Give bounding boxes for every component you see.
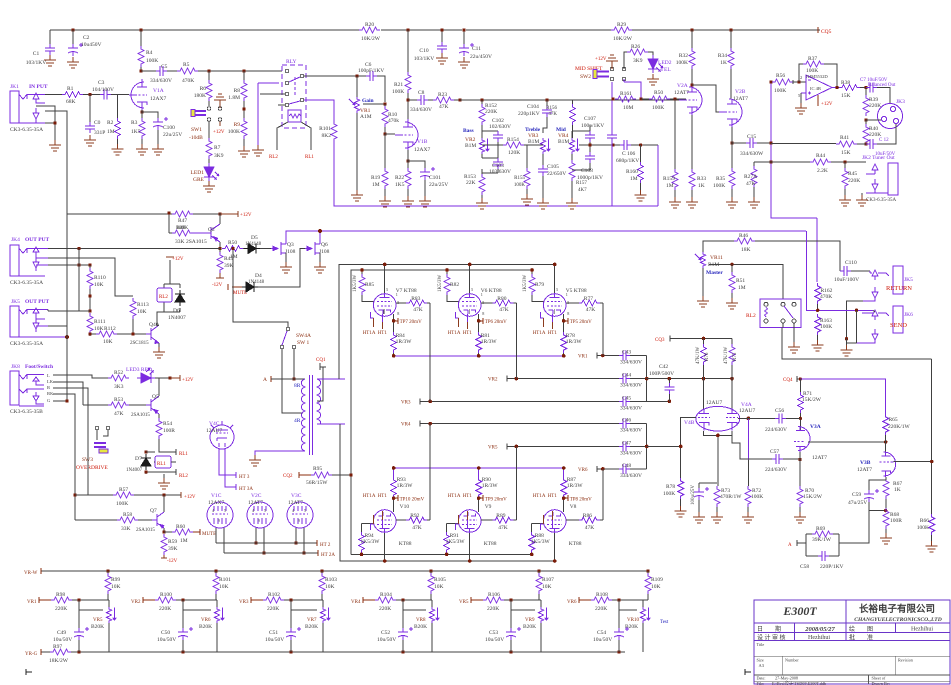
resistor R60 [172, 529, 193, 535]
tap VR5 grid line [507, 443, 619, 449]
tube V1C heater [207, 502, 233, 528]
svg-text:CQ2: CQ2 [283, 474, 293, 479]
resistor R156 [572, 100, 574, 104]
svg-text:220K: 220K [869, 103, 881, 109]
transistor Q7 [152, 512, 164, 528]
svg-text:C 106: C 106 [622, 151, 636, 157]
svg-text:RL1: RL1 [305, 155, 314, 160]
svg-text:V2A: V2A [677, 83, 688, 89]
resistor R107 [538, 571, 540, 573]
svg-text:RL2: RL2 [269, 155, 278, 160]
ground [238, 146, 250, 157]
resistor R108 [591, 597, 612, 603]
svg-text:1M: 1M [372, 182, 380, 188]
tap HT2A [317, 550, 319, 556]
svg-text:长裕电子有限公司: 长裕电子有限公司 [859, 603, 935, 615]
svg-text:1R/3W: 1R/3W [396, 339, 413, 345]
svg-text:220K/1W: 220K/1W [888, 424, 911, 430]
svg-text:R85: R85 [365, 282, 374, 288]
svg-text:220K: 220K [379, 606, 391, 612]
tube V4C [210, 421, 234, 449]
wire wiper to grid node [363, 103, 385, 105]
svg-text:3: 3 [386, 287, 388, 292]
wire send ring [847, 310, 857, 343]
resistor R97 [50, 649, 71, 655]
svg-text:8: 8 [397, 311, 399, 316]
pot VR7 [322, 600, 324, 607]
resistor R82 screen [446, 270, 448, 274]
svg-text:47K: 47K [586, 307, 596, 313]
wire tone input rail [460, 99, 682, 101]
wire master wiper [709, 264, 783, 299]
wire mid wiper out [579, 144, 620, 146]
svg-text:47K: 47K [114, 411, 124, 417]
capacitor C55 [699, 483, 717, 488]
svg-text:Size: Size [757, 658, 764, 663]
tap VR3 bias [251, 597, 263, 603]
svg-text:100R: 100R [163, 428, 175, 434]
svg-text:TP8 20mV: TP8 20mV [570, 498, 592, 503]
resistor R106 [483, 597, 504, 603]
tap HT3 [219, 449, 236, 478]
svg-text:Date:: Date: [757, 676, 766, 681]
resistor R154 [482, 144, 503, 146]
wire grid column [515, 303, 517, 379]
tube V3B [880, 452, 896, 477]
svg-text:B1M: B1M [558, 139, 569, 145]
svg-text:C2: C2 [83, 35, 90, 41]
svg-text:JK5: JK5 [904, 277, 913, 283]
svg-text:C3: C3 [98, 80, 105, 86]
svg-text:C52: C52 [381, 630, 390, 636]
svg-text:R92: R92 [410, 513, 419, 519]
wire V4B grid [681, 417, 696, 446]
svg-text:1R/3W: 1R/3W [481, 339, 498, 345]
svg-text:10u/50V: 10u/50V [377, 637, 396, 643]
wire top B+ bus [50, 29, 820, 31]
resistor R152 [481, 100, 483, 104]
svg-text:220p1KV: 220p1KV [518, 111, 540, 117]
resistor R102 [263, 597, 284, 603]
power +12V opamp [817, 95, 819, 106]
svg-text:4: 4 [212, 508, 214, 513]
svg-text:V2C: V2C [251, 493, 262, 499]
capacitor C59 [869, 478, 886, 490]
svg-text:V7 KT88: V7 KT88 [396, 288, 417, 294]
svg-text:Q7: Q7 [150, 508, 157, 514]
svg-text:KT88: KT88 [569, 541, 582, 547]
power +12V [220, 211, 238, 217]
wire plate riser V5 [554, 264, 556, 293]
resistor R6 [208, 71, 210, 106]
wire sleeve to ground [36, 106, 67, 214]
svg-text:R51: R51 [736, 278, 745, 284]
resistor R54 [156, 418, 162, 439]
capacitor C53 [511, 600, 535, 628]
svg-text:100pF/1KV: 100pF/1KV [358, 68, 384, 74]
capacitor C11 [463, 30, 465, 44]
svg-text:22u/25V: 22u/25V [163, 132, 182, 138]
svg-text:334/630V: 334/630V [150, 78, 172, 84]
op-amp IC4B NJM5532D [801, 75, 840, 100]
capacitor C8 [408, 99, 417, 101]
node bus junctions [71, 28, 732, 31]
svg-text:VR-W: VR-W [24, 571, 38, 576]
svg-text:C110: C110 [845, 260, 857, 266]
resistor R65 [883, 414, 889, 435]
svg-text:R100: R100 [160, 592, 172, 598]
svg-text:220K: 220K [55, 606, 67, 612]
svg-text:47u/25V: 47u/25V [848, 500, 867, 506]
svg-text:VR7: VR7 [307, 618, 317, 623]
pot VR10 [643, 600, 648, 607]
wire V3B grid to R66 column [894, 359, 932, 514]
ground [669, 197, 681, 208]
svg-text:VR6: VR6 [578, 468, 588, 473]
svg-text:12AT7: 12AT7 [733, 96, 748, 102]
wire JK4 tip [41, 248, 48, 250]
wire screen rail lower [351, 553, 532, 555]
svg-text:1N4148: 1N4148 [245, 242, 262, 247]
wire V4A grid [738, 417, 749, 419]
svg-text:10K: 10K [542, 584, 552, 590]
svg-text:180K: 180K [194, 93, 206, 99]
svg-text:R89: R89 [496, 513, 505, 519]
svg-text:5: 5 [224, 508, 226, 513]
resistor R10 [384, 104, 386, 106]
ground [812, 340, 824, 351]
svg-text:+12V: +12V [182, 378, 194, 383]
svg-text:R69: R69 [816, 526, 825, 532]
ground [203, 181, 215, 192]
svg-text:8: 8 [482, 311, 484, 316]
resistor R160 [639, 143, 642, 146]
svg-text:18K/2W: 18K/2W [49, 658, 69, 664]
svg-text:1N4007: 1N4007 [126, 468, 143, 473]
tap MUTE [193, 529, 200, 535]
capacitor C15 [732, 142, 746, 144]
svg-text:C105: C105 [547, 164, 559, 170]
ground [351, 190, 363, 201]
capacitor C0 [89, 95, 91, 123]
wire cathodes join [704, 431, 733, 440]
svg-text:100K: 100K [228, 129, 240, 135]
wire plate riser V8 [554, 533, 556, 561]
svg-text:RETURN: RETURN [886, 285, 912, 292]
svg-text:R159: R159 [663, 176, 675, 182]
wire relay NO to C6 [304, 75, 366, 77]
ground [537, 198, 549, 209]
svg-text:R4: R4 [146, 50, 153, 56]
wire JK5 tip [41, 309, 48, 311]
resistor R22 [407, 150, 409, 168]
wire grid column [429, 303, 431, 401]
svg-text:15K: 15K [841, 150, 851, 156]
ground [67, 57, 79, 68]
resistor R75 [731, 339, 733, 345]
resistor R103 [321, 571, 323, 573]
svg-text:批 准: 批 准 [849, 634, 873, 642]
svg-text:1R/3W: 1R/3W [482, 483, 499, 489]
svg-text:8R: 8R [294, 383, 301, 389]
capacitor C2 [72, 30, 74, 44]
capacitor C44 [619, 374, 630, 384]
svg-text:OVERDRIVE: OVERDRIVE [76, 465, 108, 471]
svg-text:4K7: 4K7 [578, 188, 587, 193]
pot VR1 Gain [356, 76, 358, 97]
svg-text:Bass: Bass [463, 128, 474, 134]
svg-text:47K: 47K [412, 525, 422, 531]
svg-text:220K: 220K [159, 606, 171, 612]
jack JK6 SEND [857, 306, 904, 343]
ground [521, 194, 533, 205]
svg-text:R113: R113 [137, 302, 149, 308]
svg-text:47K/1W: 47K/1W [696, 347, 701, 365]
svg-text:R3: R3 [131, 120, 138, 126]
svg-text:B20K: B20K [523, 624, 536, 630]
svg-text:100K: 100K [774, 88, 786, 94]
tap TP5 [564, 318, 569, 324]
resistor R111 [87, 313, 93, 334]
svg-text:HT1: HT1 [378, 494, 388, 499]
svg-text:1M: 1M [107, 129, 115, 135]
svg-text:Hezhihui: Hezhihui [911, 627, 933, 633]
svg-text:Q6: Q6 [321, 242, 328, 248]
svg-text:100R: 100R [890, 518, 902, 524]
svg-text:OUT PUT: OUT PUT [25, 299, 50, 305]
svg-text:V8: V8 [570, 504, 577, 510]
wire bottom +12V bus [67, 213, 220, 215]
ground [49, 140, 61, 151]
svg-text:47K: 47K [413, 307, 423, 313]
svg-text:2SA1015: 2SA1015 [136, 528, 155, 533]
wire CQ4 to R65 [800, 379, 885, 414]
tap CQ5 [817, 27, 819, 33]
svg-text:12AU7: 12AU7 [739, 408, 755, 414]
svg-text:R106: R106 [488, 592, 500, 598]
svg-text:Revision: Revision [898, 658, 914, 663]
svg-text:V3B: V3B [860, 460, 871, 466]
svg-text:R49: R49 [224, 256, 233, 262]
svg-text:100K: 100K [820, 324, 832, 330]
svg-text:A3: A3 [759, 663, 765, 668]
svg-text:1K5/3W: 1K5/3W [446, 539, 466, 545]
content groups inserted below [10, 28, 820, 231]
resistor R4 [140, 30, 142, 71]
svg-text:B20K: B20K [199, 624, 212, 630]
ground [880, 533, 892, 544]
svg-text:R32: R32 [679, 53, 688, 59]
wire phase B line [647, 401, 681, 446]
svg-text:VR8: VR8 [416, 618, 426, 623]
power -12V [216, 273, 224, 278]
svg-text:V4C: V4C [209, 421, 220, 427]
svg-text:334/630W: 334/630W [740, 151, 764, 157]
svg-text:VR1: VR1 [27, 600, 37, 605]
capacitor C51 [291, 600, 317, 628]
svg-text:103/1KV: 103/1KV [26, 60, 47, 66]
ground [711, 512, 723, 523]
svg-text:100K: 100K [676, 60, 688, 66]
heater stubs V7 [371, 312, 383, 322]
resistor R8 [243, 71, 245, 109]
power -12V [161, 555, 167, 558]
svg-text:R6: R6 [200, 86, 207, 92]
svg-text:R83: R83 [411, 296, 420, 302]
resistor R104 [375, 597, 396, 603]
tap TP10 [394, 495, 399, 501]
svg-text:C45: C45 [622, 395, 631, 401]
ground [379, 196, 391, 207]
wire bias bottom rail YR-G [41, 651, 625, 653]
wire cathode V5 [554, 309, 564, 321]
svg-text:12AT7: 12AT7 [812, 455, 827, 461]
tube V9 KT88 lower [458, 510, 481, 533]
resistor R26 [624, 52, 627, 69]
svg-text:C53: C53 [489, 630, 498, 636]
svg-text:R79: R79 [535, 282, 544, 288]
svg-text:MUTE: MUTE [202, 532, 216, 537]
svg-text:R7: R7 [214, 145, 221, 151]
svg-text:+12V: +12V [213, 130, 225, 135]
svg-text:15K/2W: 15K/2W [802, 397, 822, 403]
ground [436, 53, 448, 64]
svg-text:15K: 15K [841, 93, 851, 99]
tap VR6 bias [579, 597, 591, 603]
resistor R50 [218, 247, 221, 250]
svg-text:C5: C5 [161, 64, 168, 70]
svg-text:Gain: Gain [362, 98, 374, 104]
tap RL1 [159, 439, 176, 455]
svg-text:1.8M: 1.8M [228, 95, 240, 101]
svg-text:10u/50V: 10u/50V [485, 637, 504, 643]
svg-text:100K: 100K [514, 183, 526, 188]
resistor R41 [771, 143, 836, 145]
diode D5 [243, 248, 244, 250]
svg-text:D7: D7 [135, 456, 142, 462]
svg-text:1: 1 [396, 292, 398, 297]
capacitor C12 [866, 139, 877, 149]
power +12V tap [214, 94, 226, 108]
svg-text:39K/1W: 39K/1W [812, 537, 832, 543]
switch SW1 [207, 107, 222, 122]
wire grid column [602, 303, 604, 356]
resistor R79 screen [531, 270, 533, 274]
capacitor C52 [403, 600, 426, 628]
svg-text:10K: 10K [103, 339, 113, 345]
power +12V [170, 375, 180, 381]
svg-text:1N4007: 1N4007 [168, 315, 186, 321]
svg-text:JK6: JK6 [904, 312, 913, 318]
svg-text:220K: 220K [595, 606, 607, 612]
svg-text:SW4A: SW4A [296, 333, 311, 339]
tube V5 KT88 [543, 293, 566, 316]
svg-text:104/100V: 104/100V [92, 87, 114, 93]
svg-text:2SA1015: 2SA1015 [186, 239, 207, 245]
svg-text:4R: 4R [294, 418, 301, 424]
svg-text:Master: Master [706, 270, 723, 276]
svg-text:100u/25V: 100u/25V [691, 485, 696, 505]
svg-text:+12V: +12V [172, 257, 184, 262]
svg-text:J108: J108 [285, 249, 296, 255]
resistor R73 [717, 440, 719, 486]
resistor R68 [884, 509, 887, 512]
svg-text:C57: C57 [770, 449, 779, 455]
svg-text:CQ3: CQ3 [655, 338, 665, 343]
wire return ring to gnd [847, 301, 864, 339]
tube V2A [679, 85, 702, 115]
svg-text:R56: R56 [776, 73, 785, 79]
capacitor C109 (on SW2 drop) [607, 131, 617, 142]
capacitor C108 [585, 152, 595, 163]
resistor R161 [615, 98, 641, 100]
svg-text:C1: C1 [33, 51, 40, 57]
svg-text:R78: R78 [666, 484, 675, 490]
svg-text:CHANGYUELECTRONICSCO.,LTD: CHANGYUELECTRONICSCO.,LTD [854, 617, 942, 623]
svg-text:HT1A: HT1A [448, 494, 461, 499]
tap CQ3 [670, 336, 732, 342]
wire send line [807, 231, 873, 310]
node plate [139, 69, 142, 72]
svg-text:47K: 47K [499, 307, 509, 313]
svg-text:1R/3W: 1R/3W [397, 483, 414, 489]
svg-text:10uF/100V: 10uF/100V [834, 277, 859, 283]
ground [285, 253, 287, 262]
wire V3C heater pins [296, 528, 304, 553]
tube V7 KT88 [373, 293, 396, 316]
resistor R101 [215, 571, 217, 573]
svg-text:RL1: RL1 [157, 462, 166, 467]
svg-text:10u/50V: 10u/50V [593, 637, 612, 643]
capacitor C50 [183, 600, 211, 628]
svg-text:E300T: E300T [782, 604, 817, 618]
svg-text:100K: 100K [392, 89, 404, 95]
svg-text:R54: R54 [163, 421, 172, 427]
tap VR4 bias [363, 597, 375, 603]
ground [458, 57, 470, 68]
svg-text:1M: 1M [630, 176, 638, 182]
svg-text:E:\Bya\设计\TSD05\E300T.ddb: E:\Bya\设计\TSD05\E300T.ddb [772, 680, 826, 685]
capacitor C6 [366, 71, 377, 81]
svg-text:9: 9 [258, 518, 260, 523]
resistor R78 cathode [561, 332, 567, 353]
node cathode [406, 159, 409, 162]
svg-text:HT 2: HT 2 [320, 543, 331, 548]
svg-text:C0: C0 [94, 120, 101, 126]
resistor R77 grid [566, 302, 579, 304]
svg-text:3K3: 3K3 [114, 384, 124, 390]
wire grid column [515, 446, 517, 520]
heater stubs V5 [541, 312, 553, 322]
svg-text:R101: R101 [219, 577, 231, 583]
ground [163, 474, 165, 478]
svg-text:10u/50V: 10u/50V [265, 637, 284, 643]
svg-text:GRE: GRE [193, 177, 205, 183]
svg-text:R76: R76 [705, 352, 710, 361]
svg-text:103/630V: 103/630V [489, 169, 511, 175]
relay RL1 coil [155, 456, 171, 468]
heater stubs V10 [371, 520, 383, 530]
capacitor C57 [732, 435, 772, 459]
svg-text:JK8: JK8 [11, 364, 20, 370]
svg-text:10K: 10K [137, 309, 147, 315]
wire footswitch nets [53, 375, 108, 430]
svg-text:VR4: VR4 [401, 423, 411, 428]
svg-text:5: 5 [264, 508, 266, 513]
svg-text:1K5/3W: 1K5/3W [531, 539, 551, 545]
resistor R81 cathode [476, 332, 482, 353]
resistor R33 [691, 115, 693, 169]
